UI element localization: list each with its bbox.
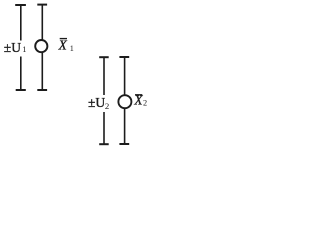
error bar B2 (right bar of measurement 1) top cap (37, 4, 47, 6)
wire B4 lower segment (124, 109, 126, 144)
wire B4 upper segment (124, 57, 126, 95)
svg-text:±U: ±U (88, 95, 105, 110)
svg-text:±U: ±U (4, 40, 21, 55)
svg-text:X: X (58, 37, 68, 52)
error bar B4 bottom cap (119, 143, 129, 145)
error bar B2 bottom cap (37, 89, 47, 91)
wire B3 upper segment (103, 57, 105, 95)
overline of X2 (135, 94, 142, 96)
wire B1 lower segment (20, 57, 22, 91)
error bar B1 (left bar of measurement 1) top cap (15, 4, 26, 6)
svg-text:X: X (133, 93, 143, 108)
svg-text:1: 1 (22, 44, 26, 54)
error bar B4 (right bar of measurement 2) top cap (119, 56, 129, 58)
wire B1 upper segment (20, 5, 22, 41)
svg-text:2: 2 (143, 99, 147, 108)
error bar B3 bottom cap (99, 143, 109, 145)
overline of X1 (60, 38, 67, 40)
wire B2 upper segment (41, 5, 43, 41)
error bar B3 (left bar of measurement 2) top cap (99, 56, 109, 58)
error bar B1 bottom cap (16, 89, 26, 91)
node circle U2 (mean value marker) (118, 95, 131, 108)
wire B2 lower segment (41, 53, 43, 90)
wire B3 lower segment (103, 112, 105, 144)
node circle U1 (mean value marker) (35, 40, 47, 52)
svg-text:1: 1 (70, 44, 74, 53)
svg-text:2: 2 (105, 101, 109, 111)
